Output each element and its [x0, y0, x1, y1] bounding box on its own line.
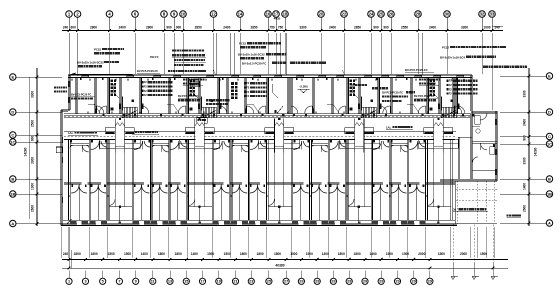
- bottom axis circle 3: [100, 278, 106, 284]
- bottom axis circle 5: [133, 278, 139, 284]
- svg-text:3300: 3300: [31, 91, 35, 98]
- double door bulge bay 3: [134, 185, 142, 193]
- grid axis 8 top: [161, 11, 168, 18]
- double door bulge bay 9: [250, 185, 258, 193]
- svg-text:1500: 1500: [438, 252, 445, 256]
- annex partition x=472: [469, 113, 471, 179]
- svg-text:1300: 1300: [31, 183, 35, 190]
- svg-text:29: 29: [412, 280, 416, 284]
- opposite door bay 15: [383, 141, 389, 147]
- svg-text:28: 28: [416, 12, 421, 17]
- opposite door bay 11: [304, 141, 310, 147]
- svg-text:12: 12: [211, 12, 216, 17]
- svg-text:2800: 2800: [90, 25, 97, 29]
- svg-text:750: 750: [269, 25, 275, 29]
- svg-text:1800: 1800: [274, 252, 281, 256]
- svg-text:1500: 1500: [290, 252, 297, 256]
- wall x=313 upper: [312, 78, 314, 114]
- wire polylines in upper band: [113, 84, 119, 98]
- stairwell walls x=360: [377, 78, 379, 114]
- right annex right wall: [494, 111, 496, 181]
- double door bulge bay 7: [213, 185, 221, 193]
- svg-text:14280: 14280: [534, 147, 538, 156]
- unit 3 stair bay (open): [266, 78, 268, 114]
- lower partition wall x=187.1: [186, 140, 188, 221]
- svg-text:240: 240: [63, 252, 69, 256]
- grid leader extensions into annotation band: [109, 33, 111, 74]
- lower rooms top wall segments: [64, 139, 455, 141]
- svg-text:2400: 2400: [429, 25, 436, 29]
- porch upper wings x=279.2: [265, 128, 275, 134]
- svg-text:2400: 2400: [119, 25, 126, 29]
- bottom axis circle 18: [346, 278, 352, 284]
- svg-text:4030: 4030: [274, 17, 281, 21]
- porch steps x=279.2: [275, 145, 284, 147]
- svg-text:1500: 1500: [306, 252, 313, 256]
- swing door bay 5: [170, 141, 179, 150]
- svg-text:B: B: [548, 176, 551, 181]
- left edge step: [61, 109, 70, 111]
- svg-text:PC22: PC22: [94, 47, 101, 51]
- grid axis 14 top: [237, 11, 244, 18]
- grid axis C right: [546, 133, 552, 139]
- corridor panel blob x=187: [202, 114, 205, 117]
- shaft boxes upper: [190, 81, 200, 87]
- lower band middle wall: [64, 181, 455, 183]
- svg-text:1800: 1800: [240, 252, 247, 256]
- svg-text:32: 32: [480, 12, 485, 17]
- wall x=245 upper: [244, 78, 246, 114]
- opposite door bay 7: [224, 141, 230, 147]
- grid axis 16 top: [265, 11, 272, 18]
- bay centre closet walls: [78, 184, 80, 220]
- stair shaft dark bar x=440: [441, 97, 442, 111]
- corridor panel blob x=108: [123, 114, 126, 117]
- svg-text:14: 14: [238, 12, 243, 17]
- closet header bay 4: [152, 142, 169, 144]
- bottom axis circle 10: [216, 278, 222, 284]
- entry porch canopy x=199.6: [195, 123, 203, 153]
- wall x=391 upper: [390, 78, 392, 114]
- right vertical dimension line: [528, 68, 530, 226]
- svg-text:D: D: [548, 109, 551, 114]
- lower rooms inner bottom line: [63, 219, 455, 221]
- wall x=291 upper: [290, 78, 292, 114]
- meter closet walls x=347: [346, 78, 348, 114]
- svg-text:1400: 1400: [370, 252, 377, 256]
- bottom axis circle 16: [314, 278, 320, 284]
- lower partition wall x=346.3: [345, 140, 347, 221]
- svg-text:2850: 2850: [250, 25, 257, 29]
- svg-text:22: 22: [342, 12, 347, 17]
- bottom-left corner diagonal tick: [67, 219, 72, 224]
- grid axis 26 top: [388, 11, 395, 18]
- svg-text:10: 10: [181, 12, 186, 17]
- grid axis 22 top: [341, 11, 348, 18]
- grid axis 4 top: [106, 11, 113, 18]
- svg-text:2600: 2600: [523, 205, 527, 212]
- svg-text:900: 900: [523, 135, 527, 141]
- corridor small panels: [160, 114, 162, 116]
- svg-text:PC22: PC22: [442, 45, 449, 49]
- porch zigzag mark x=119.9: [115, 123, 124, 127]
- svg-text:BV-3x25+1x16-SC4: BV-3x25+1x16-SC4: [440, 55, 466, 59]
- svg-text:11: 11: [151, 280, 155, 284]
- grid axis 18 top: [282, 11, 289, 18]
- corridor south wall: [64, 116, 470, 118]
- svg-text:5: 5: [102, 280, 104, 284]
- bottom axis circle 2: [82, 278, 88, 284]
- porch upper wings x=199.6: [185, 128, 195, 134]
- bottom axis circle 4: [116, 278, 122, 284]
- bottom axis circle 9: [199, 278, 205, 284]
- meter closet walls x=108: [107, 78, 109, 114]
- terrace dashed horizontals: [456, 189, 498, 191]
- svg-text:19: 19: [217, 280, 221, 284]
- svg-text:14280: 14280: [24, 147, 28, 156]
- unit2 riser notes: [206, 99, 208, 101]
- stair door posts x=360: [358, 104, 360, 110]
- svg-text:E: E: [11, 74, 14, 79]
- door arc under header bay 4: [162, 145, 169, 152]
- porch steps x=359.3: [355, 145, 364, 147]
- porch zigzag mark x=279.2: [275, 123, 284, 127]
- svg-text:BV-PC5-PC25-FC: BV-PC5-PC25-FC: [382, 91, 403, 95]
- top wall window marks: [82, 75, 89, 77]
- svg-text:900: 900: [373, 25, 379, 29]
- svg-text:29: 29: [363, 280, 367, 284]
- stair flight hatch x=440: [441, 107, 443, 118]
- grid axis B right: [546, 176, 552, 182]
- meter block columns x=347: [350, 80, 353, 83]
- svg-text:16: 16: [266, 12, 271, 17]
- svg-text:29: 29: [299, 280, 303, 284]
- closet header bay 12: [311, 142, 328, 144]
- porch zigzag mark x=359.3: [355, 123, 364, 127]
- svg-text:1800: 1800: [91, 252, 98, 256]
- svg-text:1800: 1800: [338, 252, 345, 256]
- svg-text:1C: 1C: [547, 141, 552, 146]
- svg-text:BV-3x25+1x16-SC32: BV-3x25+1x16-SC32: [238, 53, 265, 57]
- lower partition wall x=371.3: [370, 140, 372, 221]
- right annex top wall: [469, 75, 471, 111]
- svg-text:1500: 1500: [402, 252, 409, 256]
- wall x=95 upper: [94, 78, 96, 114]
- grid axis 6 top: [132, 11, 139, 18]
- svg-text:2000: 2000: [418, 252, 425, 256]
- svg-text:25: 25: [267, 280, 271, 284]
- grid axis B left: [10, 176, 16, 182]
- closet door blob x=187: [190, 108, 193, 111]
- svg-text:1000: 1000: [483, 25, 490, 29]
- black marks at corridor junctions: [103, 114, 105, 116]
- grid axis 1 top: [66, 11, 73, 18]
- bottom axis circle 20: [378, 278, 384, 284]
- svg-text:2400: 2400: [329, 25, 336, 29]
- door arc under header bay 16: [401, 145, 408, 152]
- annex internal wall y=171: [472, 170, 497, 172]
- svg-text:P22-FC: P22-FC: [150, 56, 159, 59]
- upper room door arcs: [97, 106, 104, 113]
- dashed eave line across plan: [64, 135, 455, 137]
- stair shaft dark bar x=200: [201, 97, 202, 111]
- svg-text:A: A: [11, 221, 14, 226]
- opposite door bay 5: [181, 141, 187, 147]
- bottom right level markers: [452, 262, 454, 276]
- corridor panel blob x=347: [362, 114, 365, 117]
- porch lower wings x=119.9: [100, 139, 116, 148]
- bottom axis circle 7: [167, 278, 173, 284]
- lower partition wall x=168.8: [168, 140, 170, 221]
- building outer top wall (axis E): [68, 74, 472, 76]
- lower partition wall x=425.9: [425, 140, 427, 221]
- closet door blob x=108: [111, 108, 114, 111]
- svg-text:240: 240: [494, 25, 500, 29]
- right terrace dashed outline: [476, 181, 478, 222]
- lower partition wall x=328.1: [327, 140, 329, 221]
- svg-text:C: C: [11, 132, 14, 137]
- svg-text:29: 29: [379, 280, 383, 284]
- building outer left wall lower: [60, 110, 62, 226]
- wall x=453 upper: [452, 78, 454, 114]
- top dimension line: [62, 30, 503, 32]
- door arc under header bay 0: [82, 145, 89, 152]
- outlet dots along top wall: [71, 79, 73, 81]
- svg-text:2000: 2000: [460, 252, 467, 256]
- porch lower wings x=199.6: [179, 139, 195, 148]
- long leader arrow left: [71, 73, 133, 75]
- annotation leader verticals: [215, 33, 217, 75]
- svg-text:15: 15: [184, 280, 188, 284]
- svg-text:30: 30: [445, 12, 450, 17]
- svg-text:3300: 3300: [299, 25, 306, 29]
- svg-text:3300: 3300: [31, 157, 35, 164]
- text block unit1: [142, 81, 144, 83]
- left vertical dimension line: [36, 68, 38, 226]
- building outer left wall upper: [67, 75, 69, 110]
- meter column left of unit3 block: [231, 82, 234, 85]
- svg-text:900: 900: [31, 136, 35, 142]
- stair flight hatch x=360: [361, 107, 363, 118]
- grid axis 30 top: [444, 11, 451, 18]
- door arc under header bay 8: [242, 145, 249, 152]
- svg-text:3: 3: [84, 280, 86, 284]
- bottom axis circle 17: [330, 278, 336, 284]
- porch zigzag mark x=199.6: [195, 123, 204, 127]
- svg-text:B: B: [11, 176, 14, 181]
- swing door bay 9: [250, 141, 259, 150]
- porch lower wings x=359.3: [339, 139, 355, 148]
- svg-text:7: 7: [118, 280, 120, 284]
- wall x=332 upper: [331, 78, 333, 114]
- meter block columns x=427: [430, 80, 433, 83]
- entry hall bay x=187.1: [188, 206, 212, 208]
- svg-text:1400: 1400: [191, 252, 198, 256]
- stair flight hatch x=121: [122, 107, 124, 118]
- annex bathroom fixtures: [475, 116, 481, 125]
- svg-text:29: 29: [315, 280, 319, 284]
- lower partition wall x=89.2: [88, 140, 90, 221]
- grid axis D right: [546, 109, 552, 115]
- building outer bottom wall (axis A): [61, 223, 457, 225]
- svg-text:1500: 1500: [108, 252, 115, 256]
- bottom axis circle 22: [411, 278, 417, 284]
- svg-text:29: 29: [395, 280, 399, 284]
- svg-text:2400: 2400: [223, 25, 230, 29]
- svg-text:BV-PC5-PC20-FC: BV-PC5-PC20-FC: [405, 68, 428, 72]
- double door bulge bay 12: [311, 185, 319, 193]
- grid axis D left: [10, 109, 16, 115]
- door arc under header bay 12: [321, 145, 328, 152]
- closet header bay 0: [70, 142, 89, 144]
- wall x=411 upper: [410, 78, 412, 114]
- bottom axis circle 8: [183, 278, 189, 284]
- entry porch canopy x=438.4: [434, 123, 442, 153]
- grid axis 17 top: [273, 11, 280, 18]
- lower partition wall x=150.6: [149, 140, 151, 221]
- svg-text:1B: 1B: [10, 191, 15, 196]
- left wall window marks lower: [60, 137, 62, 143]
- grid axis 9 top: [171, 11, 178, 18]
- extension leaders to bottom dims: [60, 227, 62, 258]
- entry hall bay x=346.3: [348, 206, 372, 208]
- svg-text:BV-3x25+1x16-SC32: BV-3x25+1x16-SC32: [77, 60, 104, 64]
- svg-text:20: 20: [319, 12, 324, 17]
- swing door bay 1: [91, 141, 100, 150]
- grid axis E right: [546, 73, 552, 79]
- svg-text:1500: 1500: [124, 252, 131, 256]
- bottom axis circle 13: [266, 278, 272, 284]
- porch steps x=199.6: [195, 145, 204, 147]
- svg-text:18: 18: [283, 12, 288, 17]
- left riser sub-cluster: [172, 49, 174, 51]
- lower partition wall x=291.7: [291, 140, 293, 221]
- swing door bay 7: [214, 141, 223, 150]
- porch steps x=119.9: [115, 145, 124, 147]
- per-unit ceiling lamp notes: [183, 79, 185, 81]
- svg-text:1800: 1800: [74, 252, 81, 256]
- grid axis 1C right: [546, 141, 552, 147]
- left wall bay window stub: [56, 147, 62, 153]
- svg-text:A: A: [548, 220, 551, 225]
- left wall outside labels: [54, 87, 56, 89]
- svg-text:3#: 3#: [453, 207, 457, 211]
- stair shaft dark bar x=360: [361, 97, 362, 111]
- lower partition wall x=248.5: [248, 140, 250, 221]
- svg-text:21: 21: [233, 280, 237, 284]
- grid axis 2 top: [74, 11, 81, 18]
- wall x=227 upper: [226, 78, 228, 114]
- grid axis 12 top: [210, 11, 217, 18]
- bottom axis circle 14: [283, 278, 289, 284]
- grid axis 33 top: [489, 11, 496, 18]
- svg-text:-2.300: -2.300: [299, 84, 308, 88]
- porch lower wings x=279.2: [259, 139, 275, 148]
- annex door arcs: [480, 113, 487, 120]
- svg-text:1800: 1800: [158, 252, 165, 256]
- swing door bay 15: [373, 141, 382, 150]
- svg-text:3300: 3300: [523, 90, 527, 97]
- text block unit3: [244, 82, 246, 84]
- svg-text:27: 27: [284, 280, 288, 284]
- unit4 riser notes: [355, 84, 357, 86]
- svg-text:26: 26: [389, 12, 394, 17]
- grid axis 1B right: [546, 191, 552, 197]
- svg-text:2850: 2850: [354, 25, 361, 29]
- double door bulge bay 4: [152, 185, 160, 193]
- entry hall bay x=107.4: [109, 206, 133, 208]
- entry porch canopy x=279.2: [275, 123, 283, 153]
- svg-text:600: 600: [71, 25, 77, 29]
- bottom wall window blocks: [70, 221, 76, 224]
- porch upper wings x=119.9: [105, 128, 115, 134]
- lower partition wall x=266.7: [265, 140, 267, 221]
- meter closet walls x=427: [426, 78, 428, 114]
- svg-text:PC22: PC22: [239, 42, 246, 46]
- bottom axis circle 11: [232, 278, 238, 284]
- svg-text:1B: 1B: [547, 191, 552, 196]
- swing door bay 17: [409, 141, 418, 150]
- svg-text:1800: 1800: [257, 252, 264, 256]
- entry hall bay x=266.7: [268, 206, 292, 208]
- svg-text:23: 23: [249, 280, 253, 284]
- svg-text:240: 240: [63, 25, 69, 29]
- svg-text:2800: 2800: [146, 25, 153, 29]
- svg-text:29: 29: [428, 280, 432, 284]
- bottom dimension line: [62, 259, 508, 261]
- double door bulge bay 15: [373, 185, 381, 193]
- svg-text:25: 25: [379, 12, 384, 17]
- opposite door bay 13: [340, 141, 346, 147]
- double door bulge bay 5: [170, 185, 178, 193]
- grid axis A right: [546, 220, 552, 226]
- wall x=169 upper: [168, 78, 170, 114]
- swing door bay 13: [330, 141, 339, 150]
- lower partition wall x=68.7: [67, 140, 69, 221]
- bottom axis circle 12: [248, 278, 254, 284]
- svg-text:900: 900: [176, 25, 182, 29]
- svg-text:900: 900: [383, 25, 389, 29]
- double door bulge bay 13: [329, 185, 337, 193]
- grid axis 10 top: [180, 11, 187, 18]
- svg-text:BV-PC5-PC25-FC: BV-PC5-PC25-FC: [414, 95, 434, 98]
- stair shaft dark bar x=121: [122, 97, 123, 111]
- lower partition wall x=309.9: [309, 140, 311, 221]
- entry hall bay x=425.9: [427, 206, 451, 208]
- annex inner partition: [457, 137, 459, 179]
- meter block columns x=187: [190, 80, 193, 83]
- svg-text:2850: 2850: [195, 25, 202, 29]
- annex small panel blobs: [473, 114, 475, 117]
- entry porch canopy x=119.9: [116, 123, 124, 153]
- double door bulge bay 8: [232, 185, 240, 193]
- svg-text:BV-PC5-PC20-FC: BV-PC5-PC20-FC: [137, 69, 158, 73]
- lower partition wall x=212.1: [211, 140, 213, 221]
- svg-text:1: 1: [68, 280, 70, 284]
- svg-text:13: 13: [168, 280, 172, 284]
- lower band outlet dots at partitions: [69, 195, 71, 197]
- svg-text:24: 24: [369, 12, 374, 17]
- lower partition wall x=450.9: [450, 140, 452, 221]
- grid axis C left: [10, 132, 16, 138]
- grid axis 32 top: [479, 11, 486, 18]
- bottom axis circle 19: [362, 278, 368, 284]
- svg-text:BV-PC5-PC20-FC: BV-PC5-PC20-FC: [71, 94, 91, 97]
- svg-text:C: C: [548, 134, 551, 139]
- bottom total dimension line 40380: [62, 267, 508, 269]
- closet door blob x=347: [350, 108, 353, 111]
- svg-text:2600: 2600: [31, 205, 35, 212]
